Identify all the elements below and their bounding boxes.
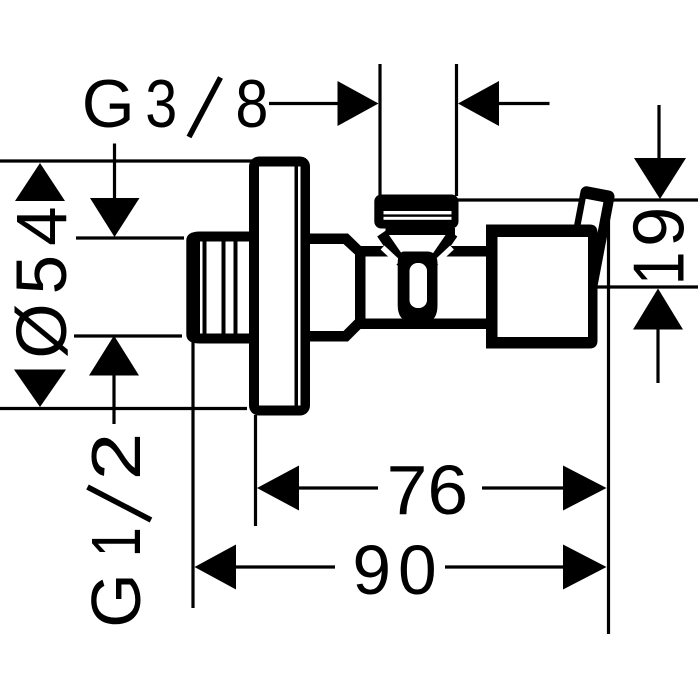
- svg-text:3: 3: [145, 66, 177, 142]
- svg-text:9: 9: [619, 207, 700, 247]
- svg-text:76: 76: [387, 451, 469, 529]
- svg-text:G: G: [82, 66, 135, 142]
- svg-text:90: 90: [352, 531, 443, 609]
- svg-text:G: G: [77, 573, 155, 627]
- svg-text:8: 8: [235, 66, 268, 142]
- svg-text:2: 2: [77, 433, 155, 481]
- svg-text:Ø54: Ø54: [3, 197, 82, 358]
- svg-text:1: 1: [77, 527, 155, 557]
- svg-text:1: 1: [619, 252, 700, 286]
